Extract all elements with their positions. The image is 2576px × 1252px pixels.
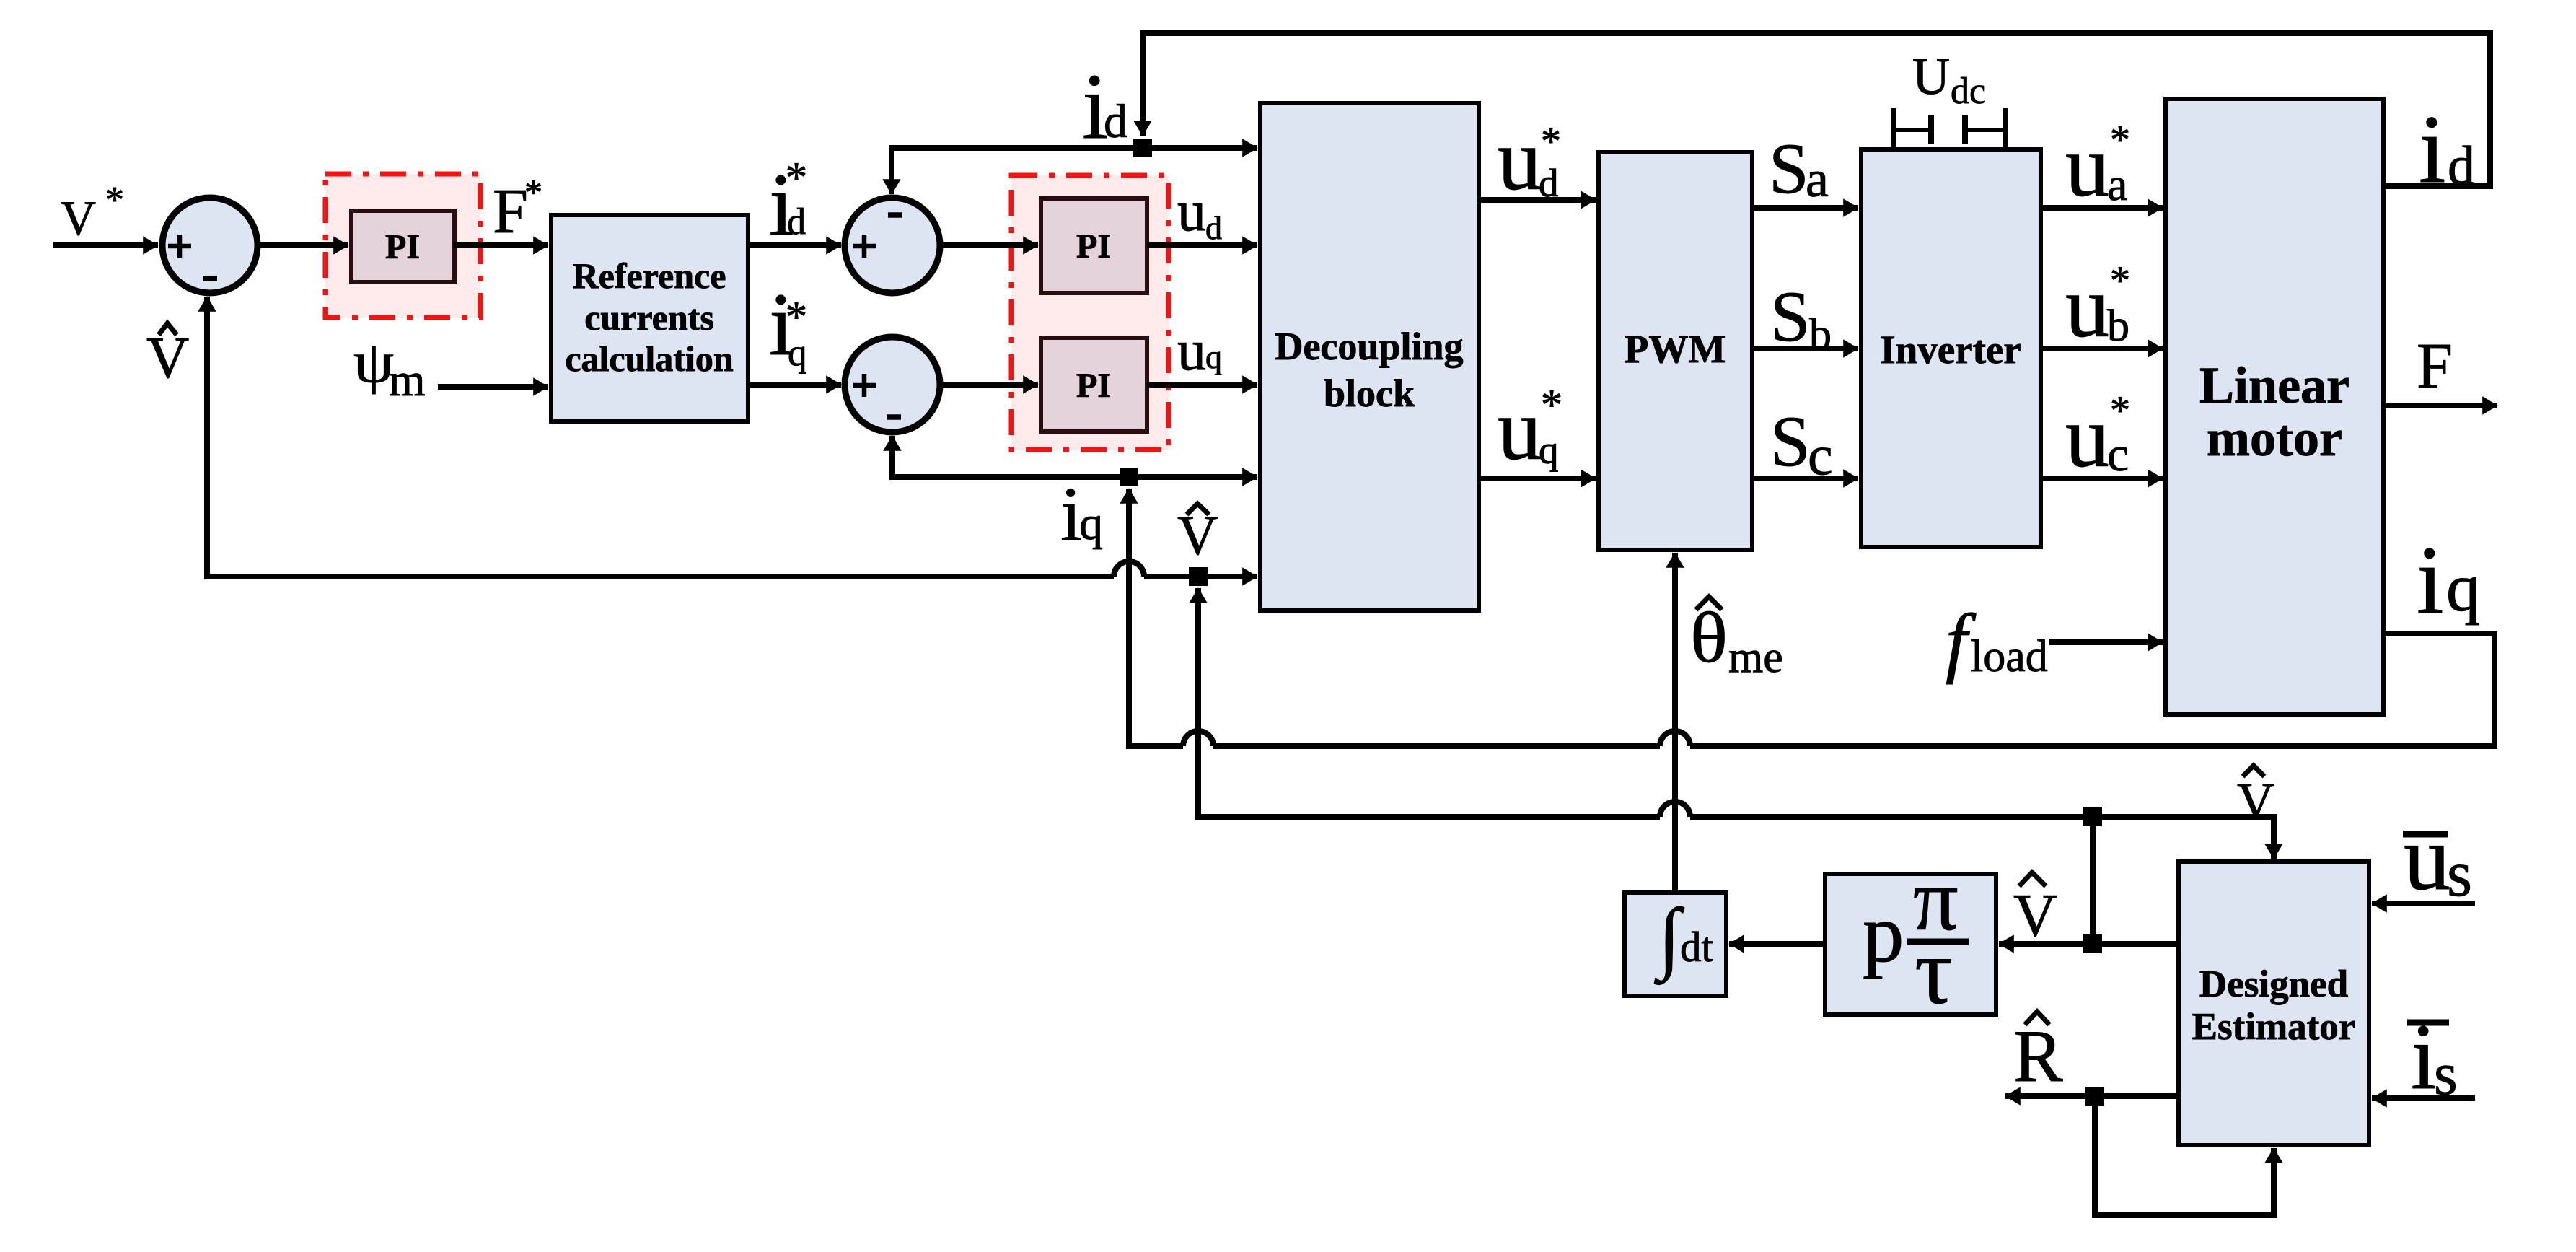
svg-text:i: i [2419, 96, 2446, 203]
svg-text:Estimator: Estimator [2192, 1006, 2356, 1048]
svg-text:d: d [1539, 161, 1559, 205]
svg-text:*: * [1541, 119, 1561, 164]
label u_c* [2065, 388, 2130, 486]
summing junction S1 [162, 198, 258, 293]
svg-text:calculation: calculation [565, 338, 734, 379]
wire u_c* : Inverter to Linear motor [2041, 476, 2163, 481]
label i_s bar [2407, 1005, 2458, 1109]
PI controller block U3 [1041, 338, 1147, 432]
svg-text:V: V [1177, 504, 1218, 566]
wire psi_m input to Reference block [438, 384, 548, 390]
svg-text:b: b [2107, 302, 2129, 351]
svg-text:τ: τ [1915, 918, 1953, 1024]
wire node J1 to Decoupling block i_d input [1143, 145, 1257, 151]
label psi_m [353, 331, 426, 406]
wire R-hat feedback to Estimator bottom [2095, 1096, 2274, 1215]
wire i_q* : Reference block to S3 [748, 382, 841, 388]
svg-text:*: * [2110, 118, 2130, 162]
wire F output of Linear motor [2383, 403, 2497, 408]
svg-text:u: u [1177, 180, 1206, 243]
PI controller block U1 [351, 211, 454, 282]
wire u_d* : Decoupling to PWM [1479, 197, 1596, 203]
wire node J2 to S3 bottom [892, 436, 1129, 477]
svg-text:m: m [389, 354, 426, 406]
svg-text:dc: dc [1951, 71, 1986, 112]
block: Inverter [1861, 149, 2041, 547]
wire i_d feedback from Linear motor top to node J1 [1143, 33, 2490, 186]
red dash-dot box around PI F-controller [325, 174, 480, 318]
svg-text:V: V [2237, 772, 2274, 830]
wire S_b : PWM to Inverter [1752, 346, 1858, 351]
label S_a [1769, 128, 1829, 209]
svg-text:a: a [1806, 150, 1829, 208]
svg-text:b: b [1809, 310, 1832, 359]
svg-text:R: R [2013, 1015, 2063, 1098]
svg-text:Designed: Designed [2199, 963, 2348, 1005]
junction J3 V-hat [1189, 567, 1208, 586]
svg-text:*: * [786, 154, 807, 201]
svg-text:*: * [524, 172, 542, 212]
label i_q mid [1060, 472, 1103, 557]
junction J4 V-hat upper [2083, 807, 2102, 826]
label i_q* [769, 275, 807, 374]
svg-text:q: q [1079, 497, 1103, 550]
label S_b [1770, 276, 1832, 359]
block: integrator dt [1625, 893, 1726, 996]
wire node J3 to S1 bottom via long left run [207, 297, 1198, 577]
label f_load [1946, 599, 2048, 685]
svg-text:PWM: PWM [1625, 327, 1726, 371]
svg-text:F: F [493, 177, 528, 247]
PI controller block U2 [1041, 198, 1147, 293]
svg-text:*: * [2110, 388, 2130, 433]
label u_q* [1498, 381, 1562, 478]
wire theta_me : integrator to PWM bottom [1672, 553, 1678, 893]
svg-text:Decoupling: Decoupling [1275, 325, 1463, 368]
wire u_s input to Estimator [2372, 901, 2475, 906]
svg-text:d: d [787, 201, 806, 242]
wire u_a* : Inverter to Linear motor [2041, 205, 2163, 211]
block: Linear motor [2166, 99, 2383, 714]
svg-text:c: c [2107, 426, 2129, 481]
wire u_d : PI U2 to Decoupling block [1147, 242, 1257, 248]
svg-text:s: s [2434, 1041, 2458, 1108]
wire S2 to PI U2 [941, 242, 1038, 248]
label u_s bar [2403, 806, 2472, 910]
hop of i_q line over V-hat vertical [1183, 731, 1213, 746]
junction J5 V-hat lower [2083, 934, 2102, 953]
block: Designed Estimator [2179, 862, 2369, 1145]
label F right [2417, 330, 2453, 402]
label u_q [1177, 319, 1222, 382]
block: p pi/tau [1825, 850, 1996, 1024]
svg-text:d: d [2448, 136, 2475, 196]
wire node J4 to Estimator top [2093, 817, 2274, 859]
wire i_q feedback from Linear motor to node J2 [1129, 489, 2494, 746]
wire S1 to PI U1 [258, 242, 348, 248]
U_dc battery symbol [1894, 108, 2005, 152]
svg-text:*: * [105, 180, 124, 221]
wire F* : PI U1 to Reference block [454, 242, 548, 248]
svg-text:a: a [2107, 159, 2127, 210]
wire u_b* : Inverter to Linear motor [2041, 346, 2163, 351]
label u_b* [2065, 258, 2130, 356]
svg-text:PI: PI [1076, 227, 1111, 266]
svg-text:V: V [2013, 882, 2057, 949]
wire u_q : PI U3 to Decoupling block [1147, 382, 1257, 388]
label V-hat mid [1177, 504, 1218, 566]
svg-text:c: c [1808, 424, 1833, 486]
svg-text:me: me [1728, 633, 1783, 682]
svg-text:*: * [1541, 381, 1562, 429]
svg-text:d: d [1104, 95, 1127, 148]
wire node J2 to Decoupling block i_q input [1129, 474, 1257, 480]
svg-text:u: u [1498, 111, 1542, 209]
label F* [493, 172, 542, 247]
svg-text:load: load [1971, 632, 2048, 681]
summing junction S3 [845, 337, 940, 432]
block: Decoupling block [1260, 103, 1479, 610]
svg-text:PI: PI [1076, 367, 1111, 405]
svg-text:u: u [1498, 381, 1542, 478]
label S_c [1770, 401, 1833, 486]
wire S_c : PWM to Inverter [1752, 476, 1858, 481]
label U_dc [1912, 48, 1986, 112]
wire V* input to S1 [53, 242, 158, 248]
svg-text:currents: currents [584, 297, 714, 338]
svg-text:u: u [2065, 388, 2109, 486]
red dash-dot box around current PI controllers [1011, 175, 1169, 450]
label i_d top [1082, 55, 1127, 159]
label R-hat [2013, 1012, 2063, 1098]
svg-text:S: S [1769, 128, 1809, 209]
svg-text:*: * [2110, 258, 2130, 303]
wire u_q* : Decoupling to PWM [1479, 476, 1596, 481]
svg-text:Inverter: Inverter [1880, 328, 2021, 372]
svg-text:motor: motor [2207, 409, 2342, 467]
wire p pi/tau to integrator [1729, 941, 1825, 947]
svg-text:block: block [1324, 372, 1415, 415]
wire node J5 up to node J4 [2090, 817, 2096, 944]
wire R-hat output of Estimator [2005, 1093, 2179, 1099]
svg-text:q: q [2446, 551, 2480, 626]
svg-text:U: U [1912, 48, 1950, 105]
summing junction S2 [845, 198, 940, 293]
label u_a* [2065, 118, 2130, 215]
hop of V-hat line over i_q vertical [1114, 561, 1144, 577]
wire i_s input to Estimator [2372, 1095, 2475, 1101]
wire V-hat : Estimator output to p pi/tau [1999, 941, 2179, 947]
label V* [61, 180, 124, 245]
junction J1 i_d [1133, 139, 1152, 157]
label theta_me hat [1690, 597, 1783, 682]
wire node J1 to S2 top [892, 148, 1143, 194]
wire S_a : PWM to Inverter [1752, 205, 1858, 211]
label V-hat before p pi/tau [2013, 872, 2057, 949]
label i_d* [769, 154, 807, 254]
svg-text:V: V [61, 191, 96, 245]
svg-text:u: u [1177, 319, 1206, 382]
label V-hat left [146, 323, 189, 390]
svg-text:S: S [1770, 276, 1811, 356]
svg-text:dt: dt [1680, 923, 1714, 971]
hop of i_q line over theta wire [1660, 731, 1690, 746]
label V-hat estimator top [2237, 766, 2274, 830]
svg-text:s: s [2447, 839, 2472, 910]
wire node J3 to Decoupling block V-hat input [1198, 574, 1257, 579]
svg-text:F: F [2417, 330, 2453, 402]
svg-text:Reference: Reference [573, 255, 726, 296]
block: PWM [1599, 152, 1752, 550]
svg-text:Linear: Linear [2199, 356, 2349, 414]
label i_q right [2417, 527, 2480, 634]
junction J6 R-hat [2085, 1087, 2104, 1106]
svg-text:d: d [1205, 209, 1222, 246]
junction J2 i_q [1120, 468, 1138, 486]
wire V-hat long line from node J4 to node J3 [1198, 588, 2093, 817]
hop of V-hat line over theta wire [1660, 802, 1690, 817]
label u_d [1177, 180, 1222, 246]
label u_d* [1498, 111, 1561, 209]
svg-text:u: u [2065, 118, 2109, 215]
svg-text:S: S [1770, 401, 1811, 481]
svg-text:q: q [1205, 338, 1222, 375]
label i_d right [2419, 96, 2475, 203]
svg-text:ψ: ψ [353, 331, 394, 395]
svg-text:q: q [1539, 428, 1559, 472]
svg-text:i: i [2417, 527, 2444, 634]
svg-text:u: u [2065, 258, 2109, 356]
wire i_d* : Reference block to S2 [748, 242, 841, 248]
wire S3 to PI U3 [941, 382, 1038, 388]
svg-text:p: p [1863, 888, 1904, 979]
svg-text:PI: PI [385, 228, 420, 266]
svg-text:V: V [146, 325, 189, 390]
svg-text:*: * [786, 293, 807, 341]
svg-text:u: u [2404, 806, 2450, 910]
wire f_load input to Linear motor [2049, 639, 2163, 645]
block: Reference currents calculation [551, 215, 748, 421]
